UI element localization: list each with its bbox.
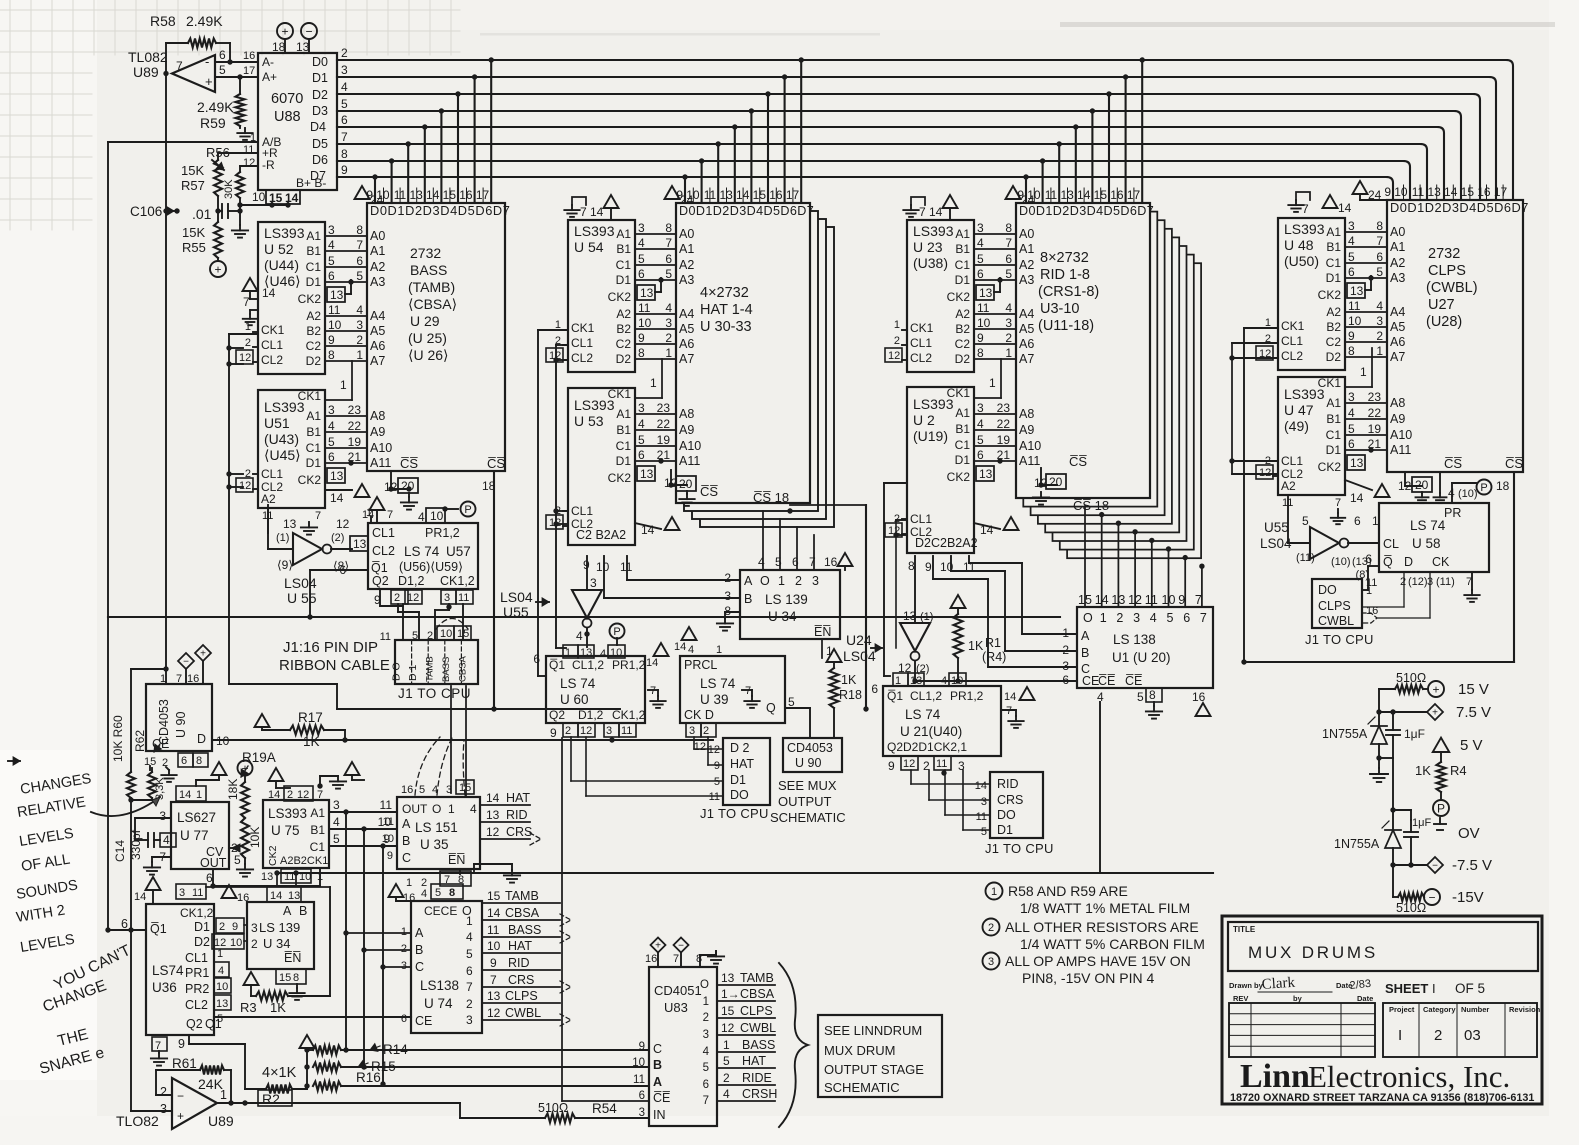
svg-text:U 74: U 74 xyxy=(424,996,453,1011)
svg-text:5 V: 5 V xyxy=(1460,737,1483,754)
ground (U54 pin 7) xyxy=(564,197,587,219)
svg-text:Revision: Revision xyxy=(1509,1005,1541,1014)
svg-text:13: 13 xyxy=(216,998,228,1010)
svg-text:CL2: CL2 xyxy=(1281,349,1303,363)
svg-text:Q2D2D1CK2,1: Q2D2D1CK2,1 xyxy=(887,740,967,754)
counter U54 (LS393) xyxy=(546,220,635,372)
power triangle (U30 pin 24) xyxy=(665,186,694,207)
label P in circle (U60) xyxy=(610,624,625,646)
svg-text:13: 13 xyxy=(580,647,592,659)
svg-text:(11): (11) xyxy=(1296,552,1315,564)
svg-text:B1: B1 xyxy=(310,823,325,837)
flip-flop U60 (LS74) xyxy=(533,645,645,723)
svg-text:11: 11 xyxy=(328,303,341,317)
svg-text:5: 5 xyxy=(419,784,425,796)
svg-text:7: 7 xyxy=(673,953,679,965)
svg-text:D4: D4 xyxy=(310,120,326,134)
resistor R54 510 xyxy=(538,1101,649,1123)
svg-text:+: + xyxy=(177,1109,184,1123)
svg-text:U 35: U 35 xyxy=(420,837,449,852)
wires U75 to U35 (A1 B1 C1) xyxy=(329,798,397,849)
svg-text:23: 23 xyxy=(997,401,1011,415)
svg-text:13: 13 xyxy=(486,808,500,822)
svg-text:B1: B1 xyxy=(616,423,631,437)
resistor R55 15K xyxy=(182,222,222,261)
svg-text:A11: A11 xyxy=(679,454,700,468)
svg-text:TAMB: TAMB xyxy=(740,971,774,985)
power triangle (U57 pin 14) xyxy=(362,497,393,523)
svg-text:(R4): (R4) xyxy=(982,650,1006,664)
ground (U75 pin 7) xyxy=(317,776,346,789)
note 3 xyxy=(983,953,1191,970)
inverter U55a (LS04) xyxy=(268,505,352,573)
svg-text:1: 1 xyxy=(1376,344,1383,358)
svg-text:B1: B1 xyxy=(955,422,970,436)
svg-text:1: 1 xyxy=(991,886,997,898)
svg-text:12: 12 xyxy=(694,741,706,753)
note 2b xyxy=(1020,936,1205,952)
power diamond plus (U83 pin16) xyxy=(651,938,666,968)
resistor 510 (bottom) xyxy=(1393,865,1426,915)
svg-text:11: 11 xyxy=(243,144,254,156)
svg-text:R61: R61 xyxy=(172,1056,197,1071)
svg-text:3: 3 xyxy=(639,1107,645,1119)
svg-text:D3: D3 xyxy=(312,104,328,118)
svg-text:D 1: D 1 xyxy=(407,665,419,682)
svg-text:U 29: U 29 xyxy=(410,313,440,329)
decoder U34 (LS139, bottom) xyxy=(247,886,314,984)
svg-text:4: 4 xyxy=(341,80,348,94)
svg-text:C14: C14 xyxy=(113,840,127,862)
svg-text:1: 1 xyxy=(989,376,996,390)
svg-text:A: A xyxy=(415,926,424,940)
power triangle (U75 pin 2/12 riser) xyxy=(269,768,291,788)
svg-text:D2: D2 xyxy=(955,352,971,366)
svg-text:A1: A1 xyxy=(306,409,321,423)
svg-text:2: 2 xyxy=(394,592,400,604)
svg-text:C̅S̅: C̅S̅ xyxy=(1505,456,1523,471)
svg-text:14: 14 xyxy=(674,641,686,653)
svg-text:OV: OV xyxy=(1458,825,1480,842)
handwritten THE xyxy=(56,1026,90,1050)
svg-text:C1: C1 xyxy=(955,258,971,272)
svg-text:8×2732: 8×2732 xyxy=(1040,250,1089,266)
svg-text:6: 6 xyxy=(1005,252,1012,266)
eprom CS pins 12 20 (U27) xyxy=(1398,472,1440,493)
svg-text:C: C xyxy=(415,960,424,974)
svg-text:1: 1 xyxy=(401,926,407,938)
svg-text:DO: DO xyxy=(1318,583,1337,597)
svg-text:10: 10 xyxy=(216,734,230,748)
svg-text:CWBL: CWBL xyxy=(740,1021,776,1035)
rev row labels xyxy=(1233,994,1373,1003)
svg-text:10: 10 xyxy=(382,833,394,845)
svg-text:+: + xyxy=(655,941,661,952)
svg-text:2: 2 xyxy=(703,1012,709,1024)
svg-text:CLPS: CLPS xyxy=(740,1004,773,1018)
svg-text:C1: C1 xyxy=(310,840,326,854)
power diamond minus (U90) xyxy=(178,653,194,684)
pins U36 right xyxy=(212,918,244,1025)
svg-text:10K: 10K xyxy=(248,827,262,848)
svg-text:CK1: CK1 xyxy=(910,321,934,335)
svg-text:E̅N̅: E̅N̅ xyxy=(284,951,301,965)
svg-text:2732: 2732 xyxy=(1428,246,1460,262)
svg-text:3: 3 xyxy=(689,725,695,737)
svg-text:3: 3 xyxy=(401,960,407,972)
svg-text:2: 2 xyxy=(665,331,672,345)
svg-text:14: 14 xyxy=(486,791,500,805)
svg-text:3: 3 xyxy=(341,63,348,77)
svg-text:3: 3 xyxy=(160,1102,167,1116)
svg-text:3: 3 xyxy=(1062,659,1069,673)
svg-text:CLPS: CLPS xyxy=(1428,263,1466,279)
svg-text:A2: A2 xyxy=(679,258,694,272)
svg-text:22: 22 xyxy=(1368,406,1382,420)
svg-text:A1: A1 xyxy=(955,406,970,420)
svg-text:A6: A6 xyxy=(1390,335,1405,349)
svg-text:RID: RID xyxy=(508,956,530,970)
svg-text:3: 3 xyxy=(638,221,645,235)
svg-text:R62: R62 xyxy=(133,730,147,752)
svg-text:⟨U 26⟩: ⟨U 26⟩ xyxy=(408,347,449,363)
wire stub to U74 A xyxy=(343,930,411,935)
ground (U90 pin 2) xyxy=(161,767,176,782)
svg-text:J1 TO CPU: J1 TO CPU xyxy=(985,841,1054,856)
svg-text:13: 13 xyxy=(979,467,993,481)
svg-text:A2: A2 xyxy=(370,260,385,274)
mux U90 (CD4053, bottom-left) xyxy=(144,673,212,769)
svg-text:C̅S̅ 18: C̅S̅ 18 xyxy=(753,490,789,505)
svg-text:LS04: LS04 xyxy=(843,648,876,664)
svg-text:2.49K: 2.49K xyxy=(197,99,234,115)
svg-text:1μF: 1μF xyxy=(1404,727,1425,741)
svg-text:U57: U57 xyxy=(446,544,471,559)
svg-text:14: 14 xyxy=(268,789,280,801)
svg-text:5: 5 xyxy=(435,887,441,899)
svg-text:SCHEMATIC: SCHEMATIC xyxy=(770,810,846,825)
svg-text:CK1,2: CK1,2 xyxy=(180,906,214,920)
svg-text:4: 4 xyxy=(723,1087,730,1101)
dashed cable curves (above U35) xyxy=(415,737,465,795)
svg-text:12: 12 xyxy=(239,480,251,492)
svg-text:1: 1 xyxy=(366,507,372,519)
svg-text:12: 12 xyxy=(336,517,350,531)
svg-text:(U56)⟨U59⟩: (U56)⟨U59⟩ xyxy=(399,560,463,574)
svg-text:HAT: HAT xyxy=(742,1054,766,1068)
svg-text:U89: U89 xyxy=(208,1113,234,1129)
svg-text:CK2: CK2 xyxy=(1318,288,1342,302)
svg-text:TAMB: TAMB xyxy=(425,656,436,682)
svg-text:7: 7 xyxy=(315,510,321,522)
svg-text:C2: C2 xyxy=(616,337,632,351)
svg-text:RID 1-8: RID 1-8 xyxy=(1040,267,1090,283)
zener 1N755A (bottom) xyxy=(1334,810,1401,868)
svg-text:CL1: CL1 xyxy=(261,338,283,352)
svg-text:3: 3 xyxy=(606,725,612,737)
counter U51 (LS393) xyxy=(236,389,325,522)
svg-text:A8: A8 xyxy=(679,407,694,421)
power triangle (U1 pin 16) xyxy=(1196,703,1211,716)
vco U77 (LS627) xyxy=(159,786,241,870)
svg-text:11: 11 xyxy=(1145,593,1158,607)
label TL082 U89 xyxy=(128,49,168,80)
svg-text:3: 3 xyxy=(703,1029,709,1041)
wire U90 pin15 down xyxy=(149,766,151,770)
power diamond 7.5V xyxy=(1427,704,1491,721)
svg-text:10: 10 xyxy=(977,316,991,330)
mux U90 (CD4053, group2) xyxy=(783,738,842,772)
svg-text:U83: U83 xyxy=(664,1000,688,1015)
svg-text:10: 10 xyxy=(299,871,311,883)
svg-text:E̅N̅: E̅N̅ xyxy=(448,853,465,867)
svg-text:6: 6 xyxy=(703,1079,709,1091)
svg-text:8: 8 xyxy=(328,348,335,362)
svg-text:5: 5 xyxy=(234,853,241,867)
wires U2 pins to U1 ABC xyxy=(908,556,1077,667)
svg-text:Drawn by: Drawn by xyxy=(1229,981,1264,990)
label J1 TO CPU (group3) xyxy=(985,841,1054,856)
eprom CS pins 12 20 (U3) xyxy=(1034,454,1087,490)
svg-text:CL2: CL2 xyxy=(372,544,395,558)
svg-text:3: 3 xyxy=(1133,611,1140,625)
svg-text:(2): (2) xyxy=(331,532,344,544)
svg-text:7: 7 xyxy=(490,973,497,987)
wire select B vertical xyxy=(361,829,366,1070)
svg-text:A10: A10 xyxy=(1019,439,1041,453)
svg-text:1K: 1K xyxy=(841,673,857,687)
resistor R62 3.3K xyxy=(131,730,166,800)
svg-text:4: 4 xyxy=(703,1046,710,1058)
decoder U34 (LS139) xyxy=(724,570,840,639)
svg-text:14: 14 xyxy=(285,191,299,205)
svg-text:23: 23 xyxy=(1368,390,1382,404)
label P in circle (U57 preset) xyxy=(461,502,476,517)
address stubs U53-U30 xyxy=(635,359,701,481)
svg-text:3: 3 xyxy=(1348,390,1355,404)
svg-text:(U 25): (U 25) xyxy=(408,330,447,346)
decoder U1 (LS138) xyxy=(1062,607,1213,688)
svg-text:14: 14 xyxy=(646,657,658,669)
svg-text:TITLE: TITLE xyxy=(1233,925,1256,934)
wire CL2 links U52 xyxy=(226,345,243,366)
resistor R60 10K xyxy=(111,715,135,803)
svg-text:13: 13 xyxy=(353,537,367,551)
svg-text:1: 1 xyxy=(317,871,323,883)
svg-text:A1: A1 xyxy=(1326,225,1341,239)
svg-text:5: 5 xyxy=(665,267,672,281)
svg-text:HAT: HAT xyxy=(508,939,532,953)
svg-text:R58: R58 xyxy=(150,13,176,29)
svg-text:Project: Project xyxy=(1389,1005,1415,1014)
ground (U77 pin 7) xyxy=(144,857,171,875)
address stubs U2-U3 xyxy=(974,359,1041,481)
svg-text:CBSA: CBSA xyxy=(740,987,775,1001)
svg-text:4: 4 xyxy=(977,236,984,250)
svg-text:+: + xyxy=(205,74,213,89)
svg-text:A11: A11 xyxy=(1390,443,1411,457)
svg-text:A5: A5 xyxy=(1390,320,1405,334)
svg-text:6: 6 xyxy=(1354,514,1361,528)
svg-text:B2: B2 xyxy=(955,322,970,336)
svg-text:D1: D1 xyxy=(312,71,328,85)
svg-text:PIN8, -15V ON PIN 4: PIN8, -15V ON PIN 4 xyxy=(1022,970,1154,986)
handwritten OF ALL xyxy=(20,851,71,874)
svg-text:J1:16 PIN DIP: J1:16 PIN DIP xyxy=(283,639,378,656)
wire D pin 10 (U90) xyxy=(212,734,713,748)
svg-text:7: 7 xyxy=(665,236,672,250)
svg-text:5: 5 xyxy=(328,254,335,268)
svg-text:8: 8 xyxy=(293,972,299,984)
svg-text:CRS: CRS xyxy=(508,973,534,987)
svg-text:1: 1 xyxy=(703,996,709,1008)
wire cap2 link xyxy=(1390,758,1411,820)
svg-text:B1: B1 xyxy=(1326,412,1341,426)
svg-text:O: O xyxy=(432,802,441,816)
svg-text:5: 5 xyxy=(723,1054,730,1068)
wire select A vertical xyxy=(343,812,348,1053)
wire CS18 G2 vertical xyxy=(863,505,868,712)
svg-text:3: 3 xyxy=(812,574,819,588)
svg-text:2: 2 xyxy=(356,333,363,347)
svg-text:U 54: U 54 xyxy=(574,239,604,255)
svg-text:7: 7 xyxy=(1195,593,1202,607)
svg-text:9: 9 xyxy=(1178,593,1185,607)
resistor R58 2.49K (feedback) xyxy=(150,13,233,74)
svg-text:LS04: LS04 xyxy=(500,589,533,605)
power + terminal (U88 pin 18) xyxy=(272,23,293,54)
svg-text:19: 19 xyxy=(1368,422,1382,436)
note 2 xyxy=(983,919,1199,936)
svg-text:1: 1 xyxy=(406,877,412,889)
ground (U47 pin 7) xyxy=(1331,509,1345,524)
svg-text:C̅S̅ 18: C̅S̅ 18 xyxy=(1073,498,1109,513)
svg-text:A2: A2 xyxy=(616,307,631,321)
mux U83 (CD4051) xyxy=(632,953,717,1126)
svg-text:14: 14 xyxy=(487,906,501,920)
svg-text:5: 5 xyxy=(217,1013,223,1025)
svg-text:−: − xyxy=(1432,861,1438,872)
svg-text:(10): (10) xyxy=(1331,556,1351,568)
svg-text:13: 13 xyxy=(1350,284,1364,298)
svg-text:3: 3 xyxy=(724,589,731,603)
svg-text:U 52: U 52 xyxy=(264,241,294,257)
svg-text:6: 6 xyxy=(1376,250,1383,264)
svg-text:CK1: CK1 xyxy=(608,387,632,401)
svg-text:U36: U36 xyxy=(152,980,177,995)
svg-text:1μF: 1μF xyxy=(1412,817,1431,829)
svg-text:14: 14 xyxy=(641,523,655,537)
svg-text:4: 4 xyxy=(688,644,694,656)
svg-text:5: 5 xyxy=(981,826,987,838)
svg-text:R4: R4 xyxy=(1450,763,1467,778)
svg-text:7: 7 xyxy=(1005,236,1012,250)
svg-text:4: 4 xyxy=(1150,611,1157,625)
title MUX DRUMS xyxy=(1248,943,1378,962)
svg-text:⟨CBSA⟩: ⟨CBSA⟩ xyxy=(408,296,457,312)
svg-text:A0: A0 xyxy=(1019,227,1034,241)
power triangle (U52 pin 14) xyxy=(243,278,276,300)
handwritten YOU CANT xyxy=(51,942,134,994)
svg-text:IN: IN xyxy=(653,1108,666,1122)
svg-text:LS 74: LS 74 xyxy=(1410,518,1446,533)
svg-text:9: 9 xyxy=(232,921,238,933)
svg-text:12: 12 xyxy=(297,789,309,801)
svg-text:5: 5 xyxy=(333,832,340,846)
svg-text:LS138: LS138 xyxy=(420,978,459,993)
svg-text:C̅S̅: C̅S̅ xyxy=(700,484,718,499)
ground (U48 pin 7) top xyxy=(1288,192,1310,216)
svg-text:U27: U27 xyxy=(1428,297,1455,313)
svg-text:A11: A11 xyxy=(1019,454,1040,468)
bus drop wires to U29 xyxy=(372,57,494,203)
svg-text:Date: Date xyxy=(1357,994,1373,1003)
power triangle (U2 pin 14) xyxy=(974,517,1019,537)
wire -7.5V xyxy=(1393,864,1427,866)
svg-text:−: − xyxy=(177,1089,184,1103)
svg-text:CL2: CL2 xyxy=(261,353,283,367)
svg-text:A4: A4 xyxy=(1390,305,1405,319)
svg-text:13: 13 xyxy=(1111,593,1125,607)
svg-text:C1: C1 xyxy=(1326,428,1342,442)
svg-text:13: 13 xyxy=(288,890,300,902)
svg-text:11: 11 xyxy=(936,758,947,770)
svg-text:3: 3 xyxy=(638,401,645,415)
svg-text:D: D xyxy=(197,732,206,746)
svg-text:D0: D0 xyxy=(312,55,328,69)
label CS 18 (U3-10) xyxy=(1073,498,1109,513)
svg-text:5: 5 xyxy=(977,433,984,447)
svg-text:BASS: BASS xyxy=(410,262,447,278)
svg-text:U88: U88 xyxy=(274,109,301,125)
svg-text:3: 3 xyxy=(1348,219,1355,233)
svg-text:Q̅1: Q̅1 xyxy=(150,922,167,936)
wires U35 outputs xyxy=(480,791,541,845)
svg-text:14: 14 xyxy=(975,780,987,792)
wire 6070 pin row to node xyxy=(240,202,291,207)
svg-text:8: 8 xyxy=(638,346,645,360)
svg-text:16: 16 xyxy=(824,555,838,569)
svg-text:16: 16 xyxy=(243,50,255,62)
svg-text:CWBL: CWBL xyxy=(1318,614,1354,628)
svg-text:6070: 6070 xyxy=(271,91,303,107)
svg-text:18K: 18K xyxy=(226,779,240,800)
wires U74 outputs xyxy=(482,889,571,1026)
svg-text:8: 8 xyxy=(356,223,363,237)
svg-text:-R: -R xyxy=(262,158,275,172)
svg-text:CLPS: CLPS xyxy=(505,989,538,1003)
svg-text:17: 17 xyxy=(243,65,255,77)
svg-text:3: 3 xyxy=(1376,314,1383,328)
resistor R18 1K xyxy=(827,649,862,738)
svg-text:11: 11 xyxy=(380,798,393,812)
note 3b xyxy=(1022,970,1154,986)
svg-text:−: − xyxy=(678,941,684,952)
svg-text:4: 4 xyxy=(163,833,170,847)
svg-text:Q: Q xyxy=(766,701,776,715)
inverter U55d (LS04) xyxy=(1260,497,1379,568)
wire U89 output down (x166) xyxy=(165,73,167,684)
svg-text:11: 11 xyxy=(709,791,720,803)
svg-text:3: 3 xyxy=(328,223,335,237)
svg-text:−: − xyxy=(1428,890,1435,904)
svg-text:6: 6 xyxy=(871,682,878,696)
svg-text:14: 14 xyxy=(1338,201,1352,215)
svg-text:2: 2 xyxy=(795,574,802,588)
svg-text:4: 4 xyxy=(1348,406,1355,420)
svg-text:O: O xyxy=(700,979,709,991)
svg-text:23: 23 xyxy=(348,403,362,417)
